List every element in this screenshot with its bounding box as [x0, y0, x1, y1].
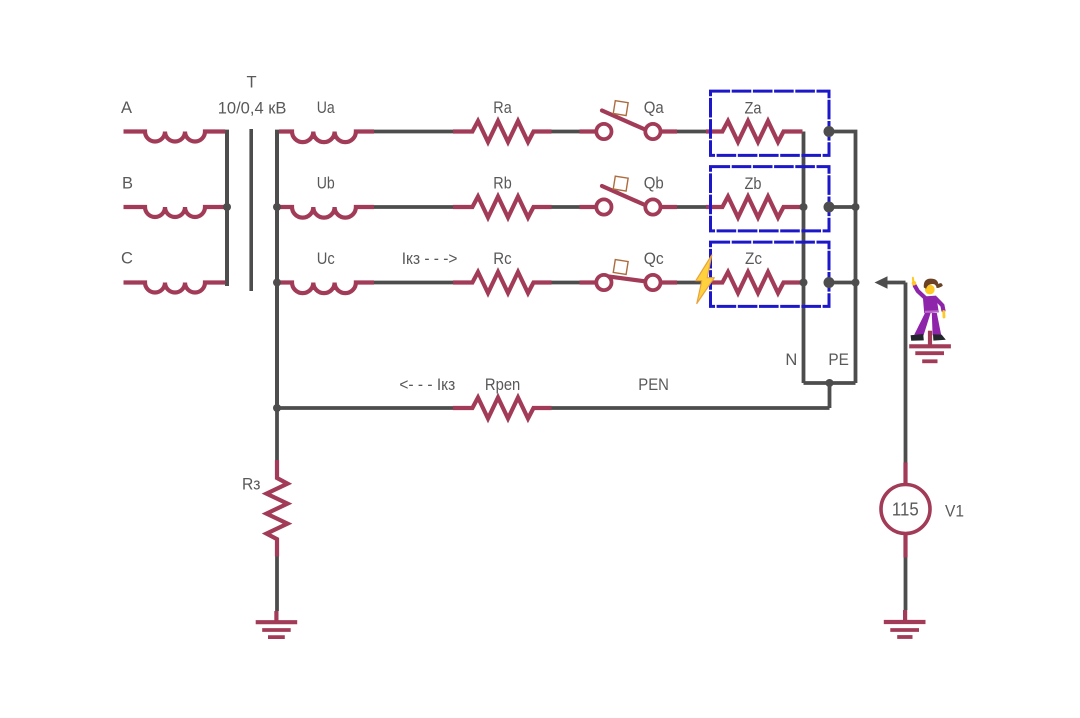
svg-text:Rpen: Rpen: [485, 376, 520, 394]
node Zb to N bus: [800, 203, 808, 211]
wire N-PE bottom tie: [804, 381, 856, 385]
svg-text:Qc: Qc: [644, 250, 664, 268]
svg-text:Uc: Uc: [317, 250, 335, 268]
enclosure box Za: [711, 91, 830, 155]
inductor Ua secondary winding: [279, 132, 374, 143]
switch Qa lead right: [661, 129, 678, 133]
wire jumper Zc case to PE bus: [829, 281, 856, 285]
wire Ua to Ra row A: [374, 130, 453, 134]
resistor Zb load: [706, 197, 803, 218]
switch Qa lever (open): [602, 111, 645, 130]
svg-text:Iкз - - ->: Iкз - - ->: [402, 250, 458, 268]
switch Qb lever (open): [602, 186, 645, 205]
wire V1 to ground: [904, 534, 908, 611]
wire R3 to ground: [275, 557, 279, 612]
belt: [925, 310, 938, 313]
svg-text:A: A: [121, 99, 132, 117]
left leg: [914, 313, 930, 336]
switch Qb lead left: [580, 205, 597, 209]
left hand with finger up: [912, 281, 917, 286]
svg-text:Zb: Zb: [745, 175, 762, 193]
voltmeter V1 top lead: [903, 463, 907, 486]
switch Qb toggle indicator square: [613, 176, 628, 191]
svg-text:V1: V1: [945, 503, 964, 521]
wire jumper Zb case to PE bus: [829, 205, 856, 209]
person touching PE (dancer): [911, 278, 946, 341]
wire Qc to Zc row C (fault point): [677, 281, 706, 285]
wire Rc to Qc row C: [552, 281, 580, 285]
svg-text:Qb: Qb: [644, 175, 664, 193]
node PE bus row C: [852, 279, 860, 287]
right leg: [932, 313, 941, 335]
svg-text:Za: Za: [745, 100, 763, 118]
svg-text:Rc: Rc: [493, 250, 511, 268]
node PE bus: jumper row A and vertical: [829, 132, 856, 384]
voltmeter V1 body: [881, 485, 930, 534]
switch Qb contact circles: [596, 199, 611, 214]
head: [925, 285, 935, 295]
switch Qc toggle indicator square: [613, 260, 628, 275]
resistor Ra: [453, 121, 552, 142]
switch Qa lead left: [580, 129, 597, 133]
switch Qc lead left: [580, 280, 597, 284]
wire probe arrow horizontal: [887, 281, 906, 285]
svg-text:115: 115: [892, 499, 919, 520]
enclosure box Zb: [711, 167, 830, 231]
svg-text:Ub: Ub: [317, 175, 335, 193]
svg-text:PEN: PEN: [638, 376, 669, 394]
svg-text:Rз: Rз: [242, 476, 261, 494]
svg-text:Zc: Zc: [745, 250, 762, 268]
left raised arm: [915, 286, 926, 299]
wire Qa to Za row A: [677, 130, 706, 134]
ground symbol under person (remote earth): [909, 331, 951, 362]
transformer T primary winding phase A: [124, 132, 226, 142]
svg-text:<- - - Iкз: <- - - Iкз: [399, 376, 455, 394]
node Za case terminal: [824, 126, 835, 137]
inductor Uc secondary winding: [279, 283, 374, 294]
svg-text:Ra: Ra: [493, 99, 512, 117]
switch Qc contact circles: [596, 275, 611, 290]
node secondary bar / phase B: [273, 203, 281, 211]
right shoe: [933, 334, 946, 340]
lightning bolt fault at Zc enclosure: [696, 255, 715, 304]
voltmeter V1 bottom lead: [903, 534, 907, 558]
transformer primary bus bar: [225, 130, 229, 286]
transformer secondary bus bar down to PEN node: [275, 130, 279, 408]
wire Ub to Rb row B: [374, 205, 453, 209]
junction dots: [223, 126, 860, 412]
wire PEN node down to R3: [275, 408, 279, 460]
resistor Rpen in PEN conductor: [453, 398, 552, 419]
wire Ra to Qa row A: [552, 130, 580, 134]
wire Qb to Zb row B: [677, 205, 706, 209]
arrowhead of probe pointing left at PE bus: [875, 276, 888, 289]
svg-text:Ua: Ua: [317, 99, 336, 117]
transformer core: [249, 129, 253, 291]
switch Qa toggle indicator square: [613, 101, 628, 116]
node Zb case terminal: [824, 202, 835, 213]
switch Qb lead right: [661, 205, 678, 209]
torso: [923, 296, 939, 314]
right hand pointing down: [942, 312, 945, 318]
svg-text:PE: PE: [828, 351, 849, 369]
node PE bus row B: [852, 203, 860, 211]
svg-text:Qa: Qa: [644, 99, 665, 117]
switch Qc lever (closed): [607, 276, 644, 281]
resistor Zc load: [706, 272, 803, 293]
svg-text:10/0,4 кВ: 10/0,4 кВ: [218, 100, 287, 118]
wire Rb to Qb row B: [552, 205, 580, 209]
node secondary bar / phase C: [273, 279, 281, 287]
ground symbol under V1: [884, 610, 926, 637]
wire probe down to voltmeter V1: [904, 283, 908, 463]
wire phase A primary lead: [227, 129, 906, 611]
transformer T primary winding phase B: [124, 207, 226, 217]
wire PEN drop stub: [828, 383, 832, 408]
transformer T primary winding phase C: [124, 283, 226, 293]
node Zc to N bus: [800, 279, 808, 287]
left shoe: [911, 334, 924, 341]
resistor R3 ground resistor vertical: [267, 460, 288, 557]
node Zc case terminal: [824, 277, 835, 288]
wire Uc to Rc row C: [374, 281, 453, 285]
node PEN junction: [273, 404, 281, 412]
resistor Rb: [453, 197, 552, 218]
ground symbol under R3: [256, 611, 298, 637]
resistor Rc: [453, 272, 552, 293]
svg-text:N: N: [785, 351, 797, 369]
right arm: [936, 298, 944, 310]
hair: [924, 279, 943, 289]
svg-text:Rb: Rb: [493, 175, 511, 193]
wire PEN conductor right part: [552, 406, 830, 410]
switch Qc lead right: [661, 280, 678, 284]
enclosure box Zc: [711, 242, 830, 306]
node primary bar / phase B: [223, 203, 231, 211]
svg-text:B: B: [122, 175, 133, 193]
svg-text:T: T: [246, 74, 256, 92]
wire PEN conductor left part: [277, 406, 453, 410]
resistor Za load: [706, 121, 803, 142]
switch Qa contact circles: [596, 124, 660, 290]
node N-PE tie to PEN: [826, 379, 834, 387]
node N bus vertical: [802, 132, 806, 384]
svg-text:C: C: [121, 250, 133, 268]
inductor Ub secondary winding: [279, 207, 374, 218]
